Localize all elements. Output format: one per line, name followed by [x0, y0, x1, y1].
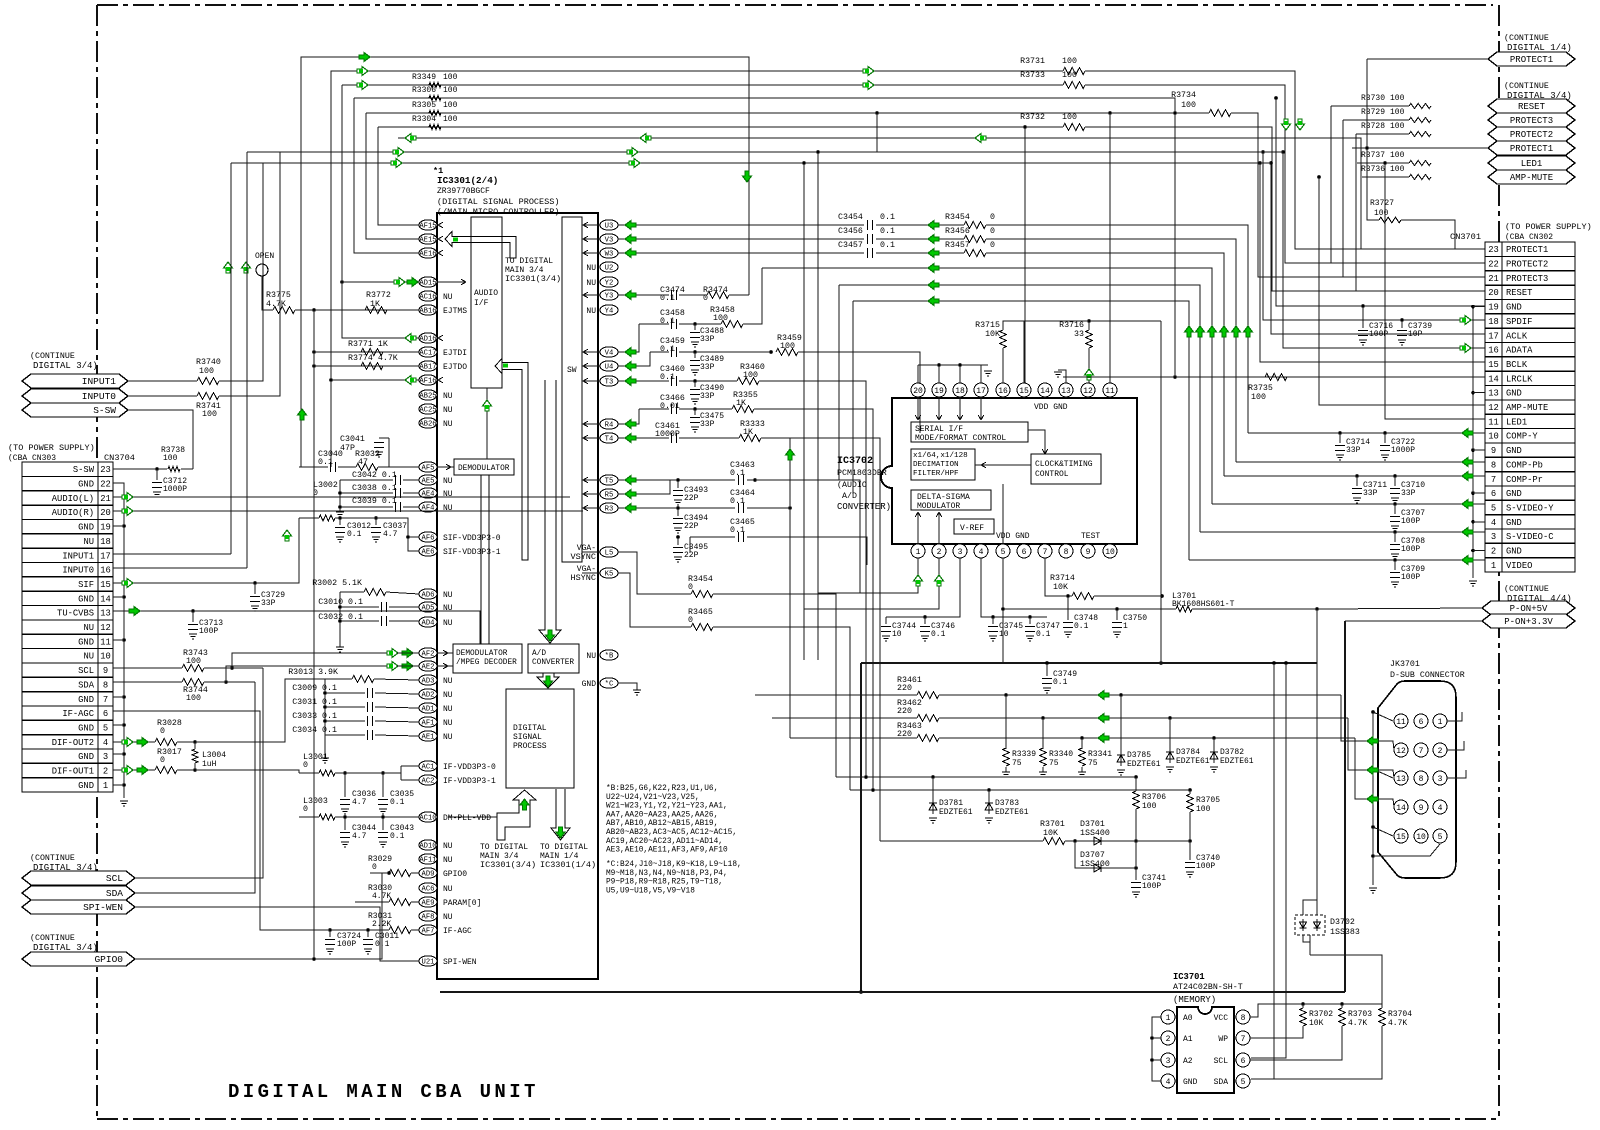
ground pin13 stub: [1058, 370, 1066, 383]
svg-text:C3454: C3454: [838, 213, 863, 222]
svg-text:33P: 33P: [700, 420, 715, 429]
svg-text:5: 5: [1491, 503, 1496, 513]
svg-text:AUDIO(L): AUDIO(L): [52, 494, 94, 504]
wire CN3701 row18 SPDIF: [1263, 152, 1485, 320]
svg-text:DIGITAL: DIGITAL: [513, 724, 547, 733]
svg-text:EDZTE61: EDZTE61: [1127, 760, 1161, 769]
wire IC3701 address strap: [1152, 1017, 1161, 1081]
svg-text:SIGNAL: SIGNAL: [513, 733, 542, 742]
svg-text:100: 100: [443, 101, 458, 110]
svg-text:SIF-VDD3P3-0: SIF-VDD3P3-0: [443, 534, 501, 543]
svg-text:TEST: TEST: [1081, 532, 1100, 541]
svg-text:NU: NU: [443, 885, 453, 894]
svg-text:16: 16: [100, 566, 111, 576]
wire top bus y98: [354, 98, 1175, 163]
svg-text:7: 7: [103, 695, 108, 705]
capacitor C3707 100P: [1394, 504, 1396, 514]
svg-text:R3349: R3349: [412, 73, 436, 82]
svg-text:DEMODULATOR: DEMODULATOR: [456, 650, 508, 658]
tag SPI-WEN: [22, 900, 135, 914]
wire S-video luma run: [762, 268, 1212, 504]
svg-text:LED1: LED1: [1506, 417, 1527, 427]
svg-text:15: 15: [100, 580, 111, 590]
IC3301 DEMODULATOR/MPEG DECODER block: [453, 644, 522, 673]
wire U3 COMP-Y run: [618, 224, 864, 226]
wire vertical to IC3702 pin11: [1109, 113, 1111, 383]
svg-text:GND: GND: [78, 723, 94, 733]
svg-text:10: 10: [100, 652, 111, 662]
svg-text:IF-VDD3P3-0: IF-VDD3P3-0: [443, 763, 496, 772]
wire S-SW run: [128, 410, 193, 469]
svg-text:4: 4: [979, 548, 984, 557]
svg-text:C3031 0.1: C3031 0.1: [292, 698, 337, 707]
svg-text:NU: NU: [443, 913, 453, 922]
svg-text:R3735: R3735: [1248, 384, 1273, 393]
svg-text:TO DIGITAL: TO DIGITAL: [480, 843, 528, 852]
svg-text:220: 220: [897, 707, 912, 716]
wire SDA 8 run: [113, 681, 182, 683]
svg-text:GND: GND: [78, 594, 94, 604]
svg-text:15: 15: [1396, 833, 1406, 842]
svg-text:R3714: R3714: [1050, 574, 1075, 583]
svg-text:6: 6: [1419, 718, 1424, 727]
svg-text:R3454: R3454: [945, 213, 970, 222]
svg-text:19: 19: [1488, 303, 1499, 313]
svg-text:VCC: VCC: [1214, 1014, 1229, 1023]
svg-text:13: 13: [1061, 387, 1071, 396]
resistor R3339 75: [1003, 748, 1010, 766]
svg-text:PROTECT1: PROTECT1: [1510, 144, 1553, 154]
capacitor C3749 0.1: [1046, 663, 1048, 676]
svg-text:INPUT1: INPUT1: [62, 551, 94, 561]
wire U4 branch: [618, 352, 650, 366]
svg-text:U2: U2: [605, 265, 614, 273]
svg-text:P-ON+3.3V: P-ON+3.3V: [1504, 617, 1553, 627]
svg-text:0: 0: [990, 227, 995, 236]
svg-text:IC3701: IC3701: [1173, 972, 1205, 982]
svg-text:SDA: SDA: [1214, 1078, 1229, 1087]
wire pin7 to R3714: [1045, 558, 1072, 596]
wire TU-CVBS 13 run: [113, 611, 480, 644]
svg-text:NU: NU: [443, 705, 453, 714]
svg-text:AD15: AD15: [419, 280, 436, 288]
svg-text:ACLK: ACLK: [1506, 331, 1528, 341]
green arrows mid-left: [298, 409, 307, 420]
green arrows top bus: [359, 53, 370, 62]
diode D3784 EDZTE61: [1169, 747, 1171, 763]
IC3701 pins left: [1161, 1010, 1175, 1024]
svg-text:SCL: SCL: [106, 873, 123, 884]
svg-text:*C: *C: [605, 681, 614, 689]
wire P-ON+3.3V run: [1345, 620, 1482, 622]
connector CN3701 pin table: [1485, 242, 1575, 572]
IC3301 AUDIO I/F block: [471, 217, 502, 388]
svg-text:EDZTE61: EDZTE61: [995, 808, 1029, 817]
svg-text:(DIGITAL SIGNAL PROCESS): (DIGITAL SIGNAL PROCESS): [437, 197, 559, 207]
resistor R3771 1K: [361, 349, 383, 356]
capacitor C3711 33P: [1356, 476, 1358, 486]
wire top bus y85: [342, 84, 1063, 86]
tag GPIO0: [22, 952, 135, 966]
svg-text:AC10: AC10: [419, 815, 436, 823]
svg-text:AF8: AF8: [422, 914, 435, 922]
svg-text:NU: NU: [443, 406, 453, 415]
wire extend y152 y163: [818, 151, 1283, 153]
svg-text:PROTECT1: PROTECT1: [1506, 245, 1548, 255]
wire CN3701 row17 ACLK: [1271, 163, 1485, 334]
svg-text:T4: T4: [605, 436, 614, 444]
svg-text:CLOCK&TIMING: CLOCK&TIMING: [1035, 460, 1093, 469]
svg-text:6: 6: [103, 709, 108, 719]
svg-text:GND: GND: [1506, 489, 1522, 499]
wire vertical x1161 from R3715: [1160, 321, 1162, 663]
capacitor C3739 10P: [1401, 320, 1403, 328]
arrow duct DSP down to TO DIGITAL MAIN 1/4: [551, 789, 570, 840]
wire CN3701 row16 ADATA: [1283, 152, 1485, 348]
svg-text:CONVERTER: CONVERTER: [532, 659, 574, 667]
svg-text:DIGITAL MAIN CBA UNIT: DIGITAL MAIN CBA UNIT: [228, 1081, 539, 1103]
svg-text:9: 9: [1086, 548, 1091, 557]
resistor R3731 100: [1063, 68, 1085, 75]
tag SDA: [22, 886, 135, 900]
svg-text:22P: 22P: [684, 551, 699, 560]
wire vertical x877 from y113: [876, 113, 878, 152]
svg-text:NU: NU: [586, 264, 596, 273]
svg-text:12: 12: [100, 623, 111, 633]
tag INPUT0: [22, 389, 128, 403]
wire AD15 net: [342, 281, 419, 283]
svg-text:D-SUB CONNECTOR: D-SUB CONNECTOR: [1390, 671, 1465, 680]
svg-text:EJTDO: EJTDO: [443, 363, 467, 372]
wire V3 COMP-Pb run: [618, 238, 864, 240]
svg-text:NU: NU: [586, 652, 596, 661]
wire CN3701 row10 COMP-Y: [1248, 432, 1485, 434]
svg-text:4.7K: 4.7K: [1348, 1019, 1367, 1028]
wire top bus y71: [331, 71, 1063, 467]
wire power loop y663: [861, 662, 1317, 664]
svg-text:AD3: AD3: [422, 678, 435, 686]
tag PROTECT2: [1488, 127, 1575, 141]
wire video run: [853, 301, 1189, 560]
svg-text:4.7: 4.7: [352, 798, 367, 807]
svg-text:R3304: R3304: [412, 115, 436, 124]
svg-text:0.1: 0.1: [1036, 630, 1051, 639]
svg-text:S-VIDEO-C: S-VIDEO-C: [1506, 532, 1554, 542]
svg-text:3: 3: [1438, 775, 1443, 784]
svg-text:R3729: R3729: [1361, 108, 1385, 117]
svg-text:R3305: R3305: [412, 101, 436, 110]
svg-text:AE16: AE16: [419, 251, 436, 259]
svg-text:NU: NU: [83, 623, 94, 633]
svg-text:100: 100: [199, 367, 214, 376]
svg-text:M9~M18,N3,N4,N9~N18,P3,P4,: M9~M18,N3,N4,N9~N18,P3,P4,: [606, 870, 728, 878]
svg-text:NU: NU: [443, 420, 453, 429]
svg-text:(CONTINUE: (CONTINUE: [30, 933, 75, 943]
svg-text:19: 19: [100, 523, 111, 533]
wire pin4 bypass bus: [981, 558, 1047, 617]
green arrows six verticals: [1185, 326, 1194, 337]
IC3702 V-REF block: [954, 519, 994, 534]
IC3702 body outline with notch: [881, 398, 1137, 544]
svg-text:DM-PLL-VDD: DM-PLL-VDD: [443, 814, 491, 823]
IC3701 pins right: [1236, 1010, 1250, 1024]
IC3702 DECIMATION FILTER/HPF block: [911, 449, 975, 480]
wire IF-AGC top lines verticals: [230, 163, 232, 554]
svg-text:DIF-OUT1: DIF-OUT1: [52, 767, 94, 777]
svg-text:17: 17: [100, 551, 111, 561]
svg-text:EDZTE61: EDZTE61: [1220, 757, 1254, 766]
svg-text:SPI-WEN: SPI-WEN: [83, 902, 123, 913]
svg-text:L5: L5: [605, 550, 614, 558]
svg-text:22P: 22P: [684, 522, 699, 531]
tag AMP-MUTE: [1488, 170, 1575, 184]
svg-text:AF1: AF1: [422, 720, 435, 728]
svg-text:11: 11: [1105, 387, 1115, 396]
svg-text:AD4: AD4: [422, 620, 435, 628]
diode D3785 EDZTE61: [1120, 750, 1122, 766]
svg-text:AE2: AE2: [422, 664, 435, 672]
svg-text:AD9: AD9: [422, 871, 435, 879]
svg-text:SCL: SCL: [1214, 1057, 1229, 1066]
svg-text:WP: WP: [1218, 1035, 1228, 1044]
wire CN3701 row8 COMP-Pb: [1236, 461, 1485, 463]
svg-text:TU-CVBS: TU-CVBS: [57, 609, 94, 619]
svg-text:LED1: LED1: [1521, 159, 1543, 169]
svg-text:(CBA CN302: (CBA CN302: [1505, 233, 1553, 242]
wire CN3701 row1 VIDEO: [1189, 559, 1485, 561]
svg-text:NU: NU: [443, 392, 453, 401]
svg-text:S-VIDEO-Y: S-VIDEO-Y: [1506, 503, 1554, 513]
svg-text:10K: 10K: [1043, 829, 1058, 838]
svg-text:18: 18: [955, 387, 965, 396]
svg-text:0: 0: [303, 761, 308, 770]
capacitor C3495 22P: [677, 537, 679, 545]
svg-text:JK3701: JK3701: [1390, 660, 1420, 669]
svg-text:NU: NU: [83, 537, 94, 547]
svg-text:100P: 100P: [1401, 517, 1420, 526]
svg-text:V4: V4: [605, 350, 614, 358]
wire pin2 analog in: [804, 558, 939, 609]
svg-text:1: 1: [916, 548, 921, 557]
svg-text:100: 100: [1390, 122, 1405, 131]
svg-text:A/D: A/D: [842, 491, 857, 501]
capacitor C3746 0.1: [924, 617, 926, 624]
svg-text:U4: U4: [605, 364, 614, 372]
svg-text:R3339: R3339: [1012, 750, 1036, 759]
wire IF-AGC 6 run: [113, 711, 330, 930]
capacitor C3043 0.1: [382, 817, 384, 830]
svg-text:3: 3: [1491, 532, 1496, 542]
svg-text:1uH: 1uH: [202, 760, 217, 769]
svg-text:AE15: AE15: [419, 237, 436, 245]
resistor R3728 100: [1409, 131, 1431, 136]
svg-text:AF2: AF2: [422, 651, 435, 659]
svg-text:17: 17: [976, 387, 986, 396]
resistor R3772 1K: [365, 307, 387, 314]
svg-text:NU: NU: [443, 604, 453, 613]
svg-text:NU: NU: [83, 652, 94, 662]
svg-text:20: 20: [913, 387, 923, 396]
svg-text:C3033 0.1: C3033 0.1: [292, 712, 337, 721]
svg-text:NU: NU: [443, 719, 453, 728]
svg-text:22: 22: [1488, 260, 1499, 270]
svg-text:C3009 0.1: C3009 0.1: [292, 684, 337, 693]
svg-text:R3341: R3341: [1088, 750, 1112, 759]
svg-text:7: 7: [1043, 548, 1048, 557]
svg-text:33P: 33P: [1363, 489, 1378, 498]
wire CN3701 row14 LRCLK: [1063, 376, 1485, 378]
svg-text:IC3301(3/4): IC3301(3/4): [505, 274, 561, 284]
svg-text:BCLK: BCLK: [1506, 360, 1528, 370]
svg-text:1: 1: [103, 781, 108, 791]
svg-text:MODULATOR: MODULATOR: [917, 502, 960, 511]
svg-text:8: 8: [103, 680, 108, 690]
tag RESET: [1488, 99, 1575, 113]
ground left cluster1: [339, 480, 341, 512]
svg-text:IC3301(1/4): IC3301(1/4): [540, 860, 596, 870]
svg-text:R3013 3.9K: R3013 3.9K: [288, 668, 338, 677]
arrow duct DSP up from DM-PLL-VDD: [497, 790, 536, 840]
svg-text:6: 6: [1022, 548, 1027, 557]
wire y777 run: [850, 789, 1190, 791]
capacitor C3747 0.1: [1029, 617, 1031, 624]
wire CN3701 row19 gnd feed: [353, 97, 355, 99]
svg-text:0.1: 0.1: [931, 630, 946, 639]
svg-text:DECIMATION: DECIMATION: [913, 461, 959, 469]
svg-text:C3041: C3041: [340, 435, 365, 444]
svg-text:(CONTINUE: (CONTINUE: [1504, 81, 1549, 91]
svg-text:A0: A0: [1183, 1014, 1193, 1023]
tag PROTECT1: [1488, 141, 1575, 155]
svg-text:AC17: AC17: [419, 350, 436, 358]
svg-text:4.7K: 4.7K: [266, 300, 286, 309]
svg-text:100: 100: [443, 115, 458, 124]
svg-text:R3732: R3732: [1020, 113, 1045, 122]
wire R5 run: [618, 480, 670, 494]
svg-text:(MEMORY): (MEMORY): [1173, 995, 1216, 1005]
svg-text:100: 100: [1374, 209, 1389, 218]
svg-text:0.1: 0.1: [1053, 678, 1068, 687]
capacitor C3750 1: [1116, 609, 1118, 620]
wire AUDIO(R) run: [113, 510, 583, 512]
svg-text:100: 100: [443, 86, 458, 95]
resistor R3737 100: [1409, 160, 1431, 165]
svg-text:21: 21: [100, 494, 111, 504]
svg-text:75: 75: [1012, 759, 1022, 768]
svg-text:S-SW: S-SW: [73, 465, 95, 475]
capacitor C3745 10: [992, 617, 994, 624]
svg-text:NU: NU: [443, 477, 453, 486]
wire AF2 demod feed: [397, 652, 419, 654]
svg-text:AB7,AB10,AB12~AB15,AB19,: AB7,AB10,AB12~AB15,AB19,: [606, 820, 718, 828]
svg-text:9: 9: [1491, 446, 1496, 456]
svg-text:R3705: R3705: [1196, 796, 1220, 805]
svg-text:13: 13: [1396, 775, 1406, 784]
IC3702 bottom pins 1-10: [911, 544, 925, 558]
IC3301 pin *B: [600, 650, 618, 660]
svg-text:AA7,AA20~AA23,AA25,AA26,: AA7,AA20~AA23,AA25,AA26,: [606, 811, 718, 819]
svg-text:Y2: Y2: [605, 280, 614, 288]
svg-text:GND: GND: [1183, 1078, 1198, 1087]
svg-text:33P: 33P: [700, 363, 715, 372]
svg-text:6: 6: [1241, 1057, 1246, 1066]
svg-text:10: 10: [999, 630, 1009, 639]
wire S-video chroma run: [839, 285, 1200, 532]
junction top bus: [1108, 111, 1112, 115]
svg-text:100: 100: [202, 410, 217, 419]
svg-text:10: 10: [1488, 432, 1499, 442]
svg-text:2: 2: [103, 767, 108, 777]
svg-text:FILTER/HPF: FILTER/HPF: [913, 470, 959, 478]
svg-text:100: 100: [443, 73, 458, 82]
svg-text:100: 100: [1390, 108, 1405, 117]
svg-text:(TO POWER SUPPLY): (TO POWER SUPPLY): [1505, 222, 1592, 232]
IC3301 body outline: [437, 213, 598, 979]
wire AF15 net: [378, 127, 419, 225]
capacitor C3744 10: [885, 617, 887, 624]
svg-text:12: 12: [1396, 747, 1406, 756]
resistor R3706 100: [1133, 791, 1140, 809]
svg-text:1: 1: [1166, 1014, 1171, 1023]
resistor R3734 100: [1209, 110, 1231, 117]
svg-text:0.1: 0.1: [347, 530, 362, 539]
wire AE15 net: [366, 113, 419, 239]
wire CN3701 row11 LED1 feed: [1385, 163, 1485, 419]
svg-text:AB17: AB17: [419, 364, 436, 372]
svg-text:GND: GND: [78, 480, 94, 490]
svg-text:100: 100: [713, 314, 728, 323]
wire DIF-OUT2 run: [177, 741, 195, 743]
svg-text:R3734: R3734: [1171, 91, 1196, 100]
svg-text:9: 9: [1419, 804, 1424, 813]
wire AE16 net: [354, 98, 419, 253]
svg-text:R5: R5: [605, 492, 614, 500]
IC3301 DEMODULATOR block: [454, 459, 514, 475]
svg-text:IF-AGC: IF-AGC: [443, 927, 472, 936]
svg-text:AD1: AD1: [422, 706, 435, 714]
resistor R3349 100: [429, 82, 441, 87]
tag P-ON+3.3V: [1482, 614, 1575, 628]
svg-text:K5: K5: [605, 571, 614, 579]
green arrows video column: [928, 221, 939, 230]
wire pin1 analog in: [818, 558, 918, 593]
svg-text:0.1: 0.1: [730, 469, 745, 478]
svg-text:DELTA-SIGMA: DELTA-SIGMA: [917, 493, 970, 502]
svg-text:22P: 22P: [684, 494, 699, 503]
wire AF16 net: [331, 379, 419, 381]
svg-text:IC3301(3/4): IC3301(3/4): [480, 860, 536, 870]
svg-text:0.1: 0.1: [390, 798, 405, 807]
IC3702 internal pin arrows: [917, 398, 919, 420]
svg-text:(AUDIO: (AUDIO: [837, 480, 867, 490]
svg-text:AUDIO: AUDIO: [474, 289, 498, 298]
svg-text:21: 21: [1488, 274, 1499, 284]
wire INPUT1 17 run: [113, 553, 231, 555]
svg-text:AD10: AD10: [419, 843, 436, 851]
wire SPI-WEN run: [135, 907, 419, 961]
svg-text:AF15: AF15: [419, 223, 436, 231]
svg-text:4.7: 4.7: [383, 530, 398, 539]
svg-text:R4: R4: [605, 422, 614, 430]
duct DEMODULATOR to MPEG decoder: [480, 475, 482, 644]
svg-text:W3: W3: [605, 251, 614, 259]
svg-text:PROTECT2: PROTECT2: [1506, 260, 1548, 270]
svg-text:2: 2: [1438, 747, 1443, 756]
svg-text:10K: 10K: [985, 330, 1000, 339]
wire power loop y995: [440, 991, 1345, 993]
capacitor C3748 0.1: [1067, 596, 1069, 620]
svg-text:SPI-WEN: SPI-WEN: [443, 958, 477, 967]
